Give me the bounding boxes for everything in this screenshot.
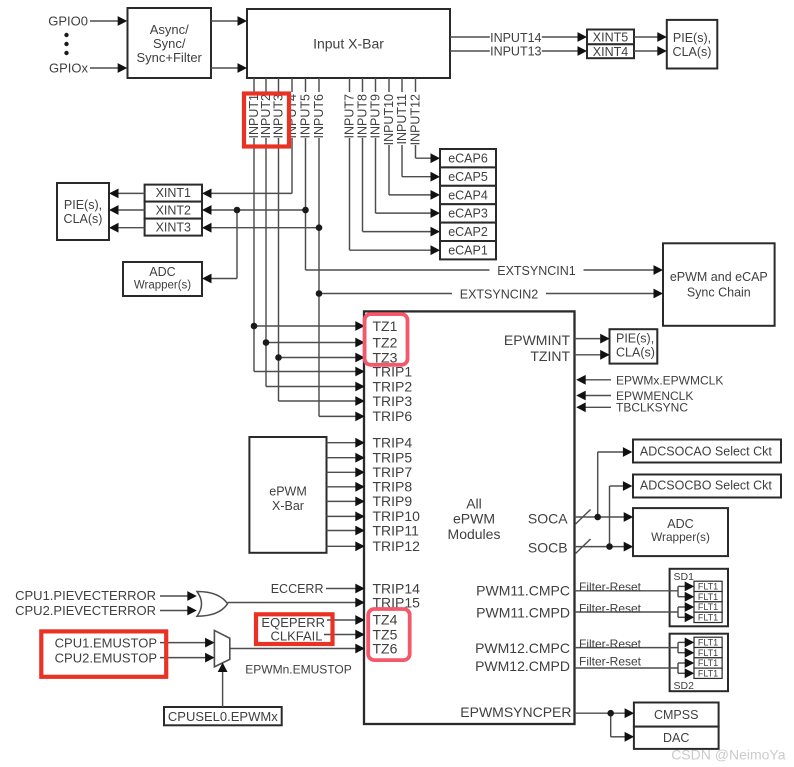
svg-text:CLKFAIL: CLKFAIL — [270, 629, 322, 644]
svg-text:eCAP5: eCAP5 — [448, 170, 488, 184]
svg-text:PIE(s),: PIE(s), — [616, 332, 654, 346]
svg-text:CPU2.EMUSTOP: CPU2.EMUSTOP — [55, 651, 157, 666]
svg-text:PIE(s),: PIE(s), — [64, 198, 102, 212]
svg-text:All: All — [466, 495, 482, 511]
svg-text:EPWMn.EMUSTOP: EPWMn.EMUSTOP — [245, 663, 351, 677]
svg-text:Sync Chain: Sync Chain — [687, 285, 751, 299]
svg-text:ePWM and eCAP: ePWM and eCAP — [670, 270, 768, 284]
svg-text:GPIO0: GPIO0 — [48, 13, 88, 28]
svg-text:CLA(s): CLA(s) — [616, 346, 655, 360]
svg-text:EPWMINT: EPWMINT — [504, 332, 571, 348]
svg-text:TRIP6: TRIP6 — [373, 408, 413, 424]
svg-text:eCAP1: eCAP1 — [448, 244, 488, 258]
svg-text:Async/: Async/ — [150, 22, 189, 37]
svg-text:CLA(s): CLA(s) — [64, 212, 103, 226]
svg-text:SD1: SD1 — [674, 571, 695, 583]
svg-text:INPUT9: INPUT9 — [369, 94, 383, 139]
svg-text:INPUT12: INPUT12 — [409, 94, 423, 145]
svg-text:Sync/: Sync/ — [153, 36, 186, 51]
svg-text:TRIP4: TRIP4 — [373, 435, 413, 451]
svg-text:CSDN @NeimoYa: CSDN @NeimoYa — [671, 747, 786, 763]
svg-text:TRIP5: TRIP5 — [373, 450, 413, 466]
svg-text:INPUT3: INPUT3 — [272, 94, 286, 139]
svg-text:CPUSEL0.EPWMx: CPUSEL0.EPWMx — [168, 709, 278, 724]
svg-text:CMPSS: CMPSS — [654, 708, 698, 722]
svg-text:INPUT11: INPUT11 — [395, 94, 409, 145]
svg-text:eCAP3: eCAP3 — [448, 207, 488, 221]
svg-text:PWM11.CMPD: PWM11.CMPD — [476, 605, 570, 621]
svg-text:SD2: SD2 — [674, 680, 695, 692]
svg-text:FLT1: FLT1 — [698, 602, 718, 612]
svg-text:eCAP6: eCAP6 — [448, 152, 488, 166]
svg-text:TRIP3: TRIP3 — [373, 393, 413, 409]
svg-text:ePWM: ePWM — [453, 510, 495, 526]
svg-text:CPU1.PIEVECTERROR: CPU1.PIEVECTERROR — [15, 588, 156, 603]
svg-text:GPIOx: GPIOx — [49, 60, 89, 75]
svg-text:INPUT13: INPUT13 — [490, 45, 541, 59]
svg-text:INPUT6: INPUT6 — [312, 94, 326, 139]
svg-text:TZ6: TZ6 — [373, 640, 398, 656]
svg-text:INPUT8: INPUT8 — [356, 94, 370, 139]
svg-text:XINT3: XINT3 — [156, 220, 191, 234]
svg-text:Sync+Filter: Sync+Filter — [137, 50, 203, 65]
svg-text:XINT5: XINT5 — [593, 31, 628, 45]
svg-text:FLT1: FLT1 — [698, 612, 718, 622]
svg-text:XINT1: XINT1 — [156, 186, 191, 200]
svg-text:eCAP2: eCAP2 — [448, 225, 488, 239]
svg-text:ADC: ADC — [149, 265, 175, 279]
svg-text:Wrapper(s): Wrapper(s) — [134, 279, 191, 291]
svg-text:Input X-Bar: Input X-Bar — [313, 35, 384, 51]
svg-text:FLT1: FLT1 — [698, 582, 718, 592]
svg-text:INPUT10: INPUT10 — [382, 94, 396, 145]
svg-text:CPU2.PIEVECTERROR: CPU2.PIEVECTERROR — [15, 603, 156, 618]
svg-text:TRIP8: TRIP8 — [373, 479, 413, 495]
svg-text:TZ2: TZ2 — [373, 334, 398, 350]
svg-text:TBCLKSYNC: TBCLKSYNC — [616, 401, 688, 415]
svg-text:INPUT5: INPUT5 — [299, 94, 313, 139]
svg-text:Filter-Reset: Filter-Reset — [579, 637, 642, 651]
svg-text:PIE(s),: PIE(s), — [673, 31, 711, 45]
svg-text:FLT1: FLT1 — [698, 668, 718, 678]
svg-text:Wrapper(s): Wrapper(s) — [651, 530, 710, 544]
svg-text:Filter-Reset: Filter-Reset — [579, 580, 642, 594]
svg-text:DAC: DAC — [663, 731, 689, 745]
svg-text:X-Bar: X-Bar — [272, 499, 304, 513]
svg-text:PWM12.CMPC: PWM12.CMPC — [475, 640, 570, 656]
svg-text:ePWM: ePWM — [269, 484, 307, 498]
svg-text:TRIP9: TRIP9 — [373, 493, 413, 509]
svg-text:EXTSYNCIN2: EXTSYNCIN2 — [460, 287, 539, 301]
svg-text:XINT2: XINT2 — [156, 203, 191, 217]
svg-text:eCAP4: eCAP4 — [448, 188, 488, 202]
svg-text:FLT1: FLT1 — [698, 592, 718, 602]
svg-text:TZINT: TZINT — [530, 348, 570, 364]
svg-text:ADC: ADC — [667, 517, 693, 531]
svg-text:EPWMx.EPWMCLK: EPWMx.EPWMCLK — [616, 373, 723, 387]
svg-text:SOCB: SOCB — [528, 539, 568, 555]
svg-text:TZ4: TZ4 — [373, 611, 398, 627]
svg-text:CPU1.EMUSTOP: CPU1.EMUSTOP — [55, 636, 157, 651]
svg-text:ADCSOCBO Select Ckt: ADCSOCBO Select Ckt — [640, 478, 773, 492]
svg-text:EPWMSYNCPER: EPWMSYNCPER — [460, 704, 571, 720]
svg-text:ECCERR: ECCERR — [271, 582, 324, 596]
svg-text:FLT1: FLT1 — [698, 648, 718, 658]
svg-text:TRIP12: TRIP12 — [373, 538, 421, 554]
svg-text:PWM11.CMPC: PWM11.CMPC — [476, 583, 570, 599]
svg-text:INPUT7: INPUT7 — [343, 94, 357, 139]
svg-text:ADCSOCAO Select Ckt: ADCSOCAO Select Ckt — [640, 445, 773, 459]
svg-text:Filter-Reset: Filter-Reset — [579, 655, 642, 669]
svg-text:Modules: Modules — [448, 526, 501, 542]
svg-text:EXTSYNCIN1: EXTSYNCIN1 — [497, 264, 576, 278]
svg-text:TZ1: TZ1 — [373, 318, 398, 334]
svg-text:PWM12.CMPD: PWM12.CMPD — [475, 658, 570, 674]
svg-text:TRIP11: TRIP11 — [373, 522, 420, 538]
svg-text:FLT1: FLT1 — [698, 638, 718, 648]
svg-text:INPUT14: INPUT14 — [490, 31, 541, 45]
svg-text:SOCA: SOCA — [528, 510, 568, 526]
svg-text:Filter-Reset: Filter-Reset — [579, 601, 642, 615]
svg-text:FLT1: FLT1 — [698, 658, 718, 668]
svg-text:XINT4: XINT4 — [593, 45, 628, 59]
svg-text:CLA(s): CLA(s) — [673, 45, 712, 59]
